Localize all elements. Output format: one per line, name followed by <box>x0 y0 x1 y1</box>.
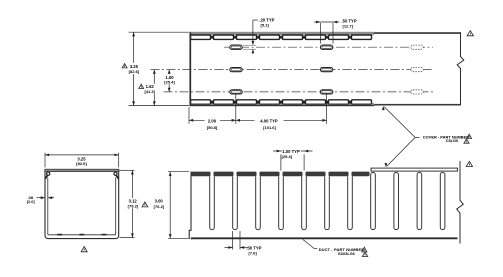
dimension 1.62 [41.3] center to edge <box>139 70 156 106</box>
top view: centerline row 2 <box>151 69 434 71</box>
top view: hidden mounting slot oval row 3 col 3 <box>411 90 423 94</box>
dimension 2.00 [50.8] end to first slot <box>189 95 236 130</box>
svg-text:[7.6]: [7.6] <box>249 250 258 255</box>
end view: inner walls and floor <box>48 178 116 235</box>
svg-text:[2.0]: [2.0] <box>27 200 36 204</box>
dimension 3.00 [76.2] duct height <box>152 172 190 239</box>
top view: mounting slot oval row 3 col 1 <box>230 90 242 94</box>
dimension .30 TYP [7.6] slot width <box>225 231 262 255</box>
dimension 3.12 [79.2] end view height <box>120 170 148 237</box>
top view: mounting slot oval row 1 col 2 <box>320 45 332 49</box>
top view: duct plan view top wall edge band <box>190 32 462 35</box>
top view: hidden mounting slot oval row 2 col 3 <box>411 68 423 72</box>
svg-text:[76.2]: [76.2] <box>154 204 165 209</box>
top view: top wall finger caps (slotted section) <box>191 35 372 39</box>
note triangle 1 top right of top view <box>467 31 473 36</box>
side view: right break line <box>457 161 464 244</box>
svg-text:[25.4]: [25.4] <box>282 154 293 159</box>
top view: mounting slot oval row 1 col 1 <box>230 45 242 49</box>
dimension 3.25 [82.6] end view width <box>45 153 119 168</box>
top view: left end edge line <box>189 32 191 105</box>
note triangle 2 below end view <box>81 246 87 251</box>
side view: finger caps <box>191 172 370 177</box>
dimension .50 TYP [12.7] oval slot length <box>314 19 357 44</box>
dimension 1.00 [25.4] row spacing <box>163 70 176 92</box>
cover leader and label COVER - PART NUMBER C3LG6 <box>382 106 472 167</box>
svg-text:[12.7]: [12.7] <box>343 23 354 28</box>
side view: cover strip on right section <box>371 168 458 171</box>
note triangle 3 right of side view <box>466 161 472 166</box>
end view: floor mounting slot marks <box>57 234 106 236</box>
end view: right latch hook <box>114 172 119 179</box>
svg-text:4.00 TYP: 4.00 TYP <box>260 119 278 124</box>
side view: left end edge <box>189 172 191 239</box>
svg-text:[5.1]: [5.1] <box>261 22 270 27</box>
end view: cover strip <box>45 169 119 171</box>
dimension .20 TYP [5.1] oval slot width <box>243 17 275 53</box>
side view: duct bottom base line <box>191 237 458 239</box>
end view: outer walls and floor <box>45 172 119 239</box>
duct leader and label DUCT - PART NUMBER G3X3LG6 <box>303 239 368 256</box>
svg-text:[82.6]: [82.6] <box>129 69 140 74</box>
top view: duct plan view bottom wall edge band <box>190 104 462 107</box>
top view: centerline row 1 <box>224 46 433 48</box>
svg-text:2.00: 2.00 <box>208 119 217 124</box>
svg-text:[41.3]: [41.3] <box>144 89 155 94</box>
top view: hidden mounting slot oval row 1 col 3 <box>411 45 423 49</box>
top view: mounting slot oval row 2 col 1 <box>230 68 242 72</box>
svg-text:G3X3LG6: G3X3LG6 <box>338 252 355 256</box>
svg-text:[101.6]: [101.6] <box>263 125 276 130</box>
top view: right break line <box>457 32 464 105</box>
svg-text:[82.6]: [82.6] <box>76 161 87 166</box>
dimension 3.25 [82.6] overall width of top view <box>122 32 189 105</box>
dimension 4.00 TYP [101.6] slot pitch <box>236 95 327 130</box>
dimension .08 [2.0] wall thickness <box>27 195 54 204</box>
side view: finger slots (open section) <box>210 176 353 230</box>
top view: bottom wall finger caps (slotted section) <box>191 100 372 104</box>
top view: mounting slot oval row 2 col 2 <box>320 68 332 72</box>
svg-text:[25.4]: [25.4] <box>164 80 175 85</box>
svg-text:[50.8]: [50.8] <box>207 125 218 130</box>
end view: left latch hook <box>45 172 50 179</box>
top view: centerline row 3 <box>164 91 434 93</box>
dimension 1.00 TYP [25.4] finger pitch <box>273 149 313 171</box>
svg-text:C3LG6: C3LG6 <box>446 138 459 143</box>
side view: finger slots under cover <box>371 172 445 229</box>
svg-text:[79.2]: [79.2] <box>128 203 139 208</box>
top view: mounting slot oval row 3 col 2 <box>320 90 332 94</box>
